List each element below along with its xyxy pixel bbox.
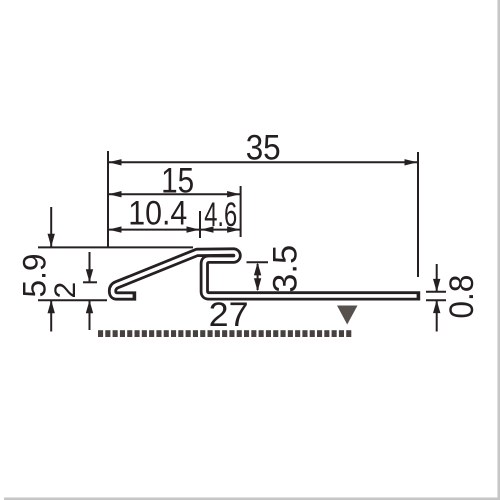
profile outline (dark band)	[113, 252, 421, 296]
profile inner white core	[113, 252, 417, 296]
dotted line	[98, 330, 351, 337]
dimension 35	[108, 129, 418, 168]
dimension 0.8	[433, 264, 481, 332]
svg-text:3.5: 3.5	[267, 245, 305, 293]
extension line E2 middle (x=200)	[199, 211, 201, 238]
extension line E4 right (x=418)	[417, 152, 419, 277]
dimension 4.6	[200, 196, 241, 234]
dimension 15	[108, 161, 241, 200]
extension line E5 top of 5.9	[38, 246, 193, 248]
tick E9 top of 0.8	[426, 291, 446, 293]
svg-text:0.8: 0.8	[443, 275, 481, 319]
svg-text:10.4: 10.4	[128, 195, 187, 233]
tick E10 bottom of 0.8	[426, 299, 446, 301]
page edge shading	[498, 0, 500, 500]
dimension 10.4	[108, 195, 200, 233]
extension line E1 left (x=108)	[107, 151, 109, 247]
triangle marker	[337, 306, 358, 325]
svg-text:35: 35	[246, 129, 281, 168]
svg-text:5.9: 5.9	[17, 254, 53, 298]
svg-text:27: 27	[209, 296, 249, 334]
svg-text:4.6: 4.6	[204, 196, 237, 234]
dimension 3.5	[254, 245, 305, 293]
dimension 2	[49, 252, 93, 330]
tick E8 top of 3.5	[247, 261, 269, 263]
svg-text:2: 2	[49, 282, 82, 299]
dimension 5.9	[17, 207, 55, 332]
tick E7 top of 2	[83, 281, 97, 283]
extension line E6 bottom of 5.9	[38, 299, 107, 301]
extension line E3 (x=240.6)	[240, 186, 242, 237]
